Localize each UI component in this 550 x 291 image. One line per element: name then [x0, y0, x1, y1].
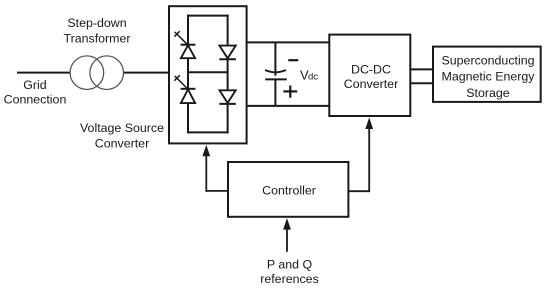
svg-text:Connection: Connection: [4, 93, 67, 107]
svg-text:Converter: Converter: [95, 136, 149, 150]
svg-text:Grid: Grid: [23, 78, 47, 92]
svg-text:Voltage Source: Voltage Source: [80, 121, 164, 135]
svg-text:references: references: [260, 272, 319, 286]
svg-text:Controller: Controller: [262, 183, 316, 197]
svg-text:P and Q: P and Q: [267, 258, 313, 272]
svg-text:Step-down: Step-down: [67, 16, 126, 30]
svg-text:Storage: Storage: [466, 86, 510, 100]
svg-text:Converter: Converter: [344, 77, 398, 91]
svg-text:Transformer: Transformer: [63, 32, 130, 46]
svg-text:DC-DC: DC-DC: [351, 62, 391, 76]
svg-text:Magnetic Energy: Magnetic Energy: [442, 70, 536, 84]
svg-text:Superconducting: Superconducting: [442, 54, 535, 68]
svg-text:dc: dc: [308, 72, 318, 83]
